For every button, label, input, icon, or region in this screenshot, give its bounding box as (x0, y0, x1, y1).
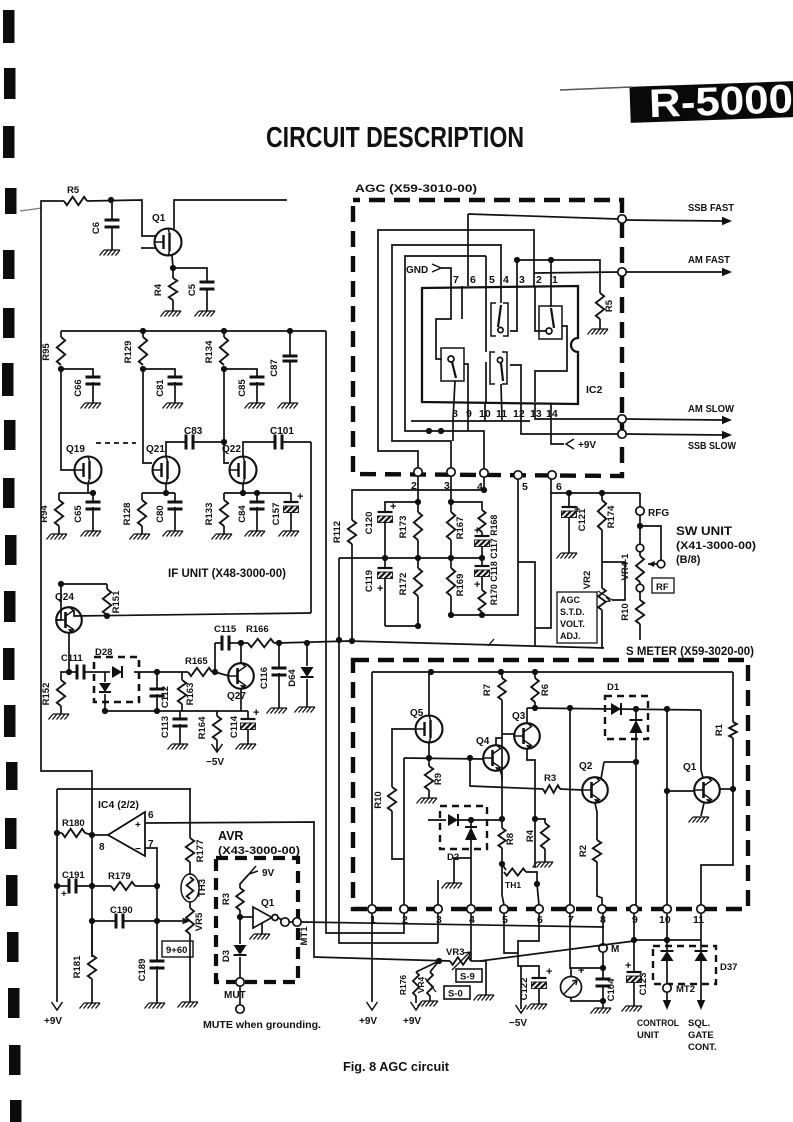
resistor R129 (142, 331, 144, 337)
capacitor C114 (247, 711, 249, 719)
connector MT1 b (289, 921, 293, 923)
wire SSB FAST from pin6 (467, 214, 469, 286)
svg-text:Q1: Q1 (152, 213, 166, 224)
svg-text:R166: R166 (246, 624, 269, 635)
variable resistor VR4 (427, 972, 433, 996)
capacitor C123 (633, 940, 635, 972)
wire pin6 node rail (551, 492, 640, 494)
svg-text:SSB FAST: SSB FAST (688, 202, 735, 214)
junction C121 tap (566, 490, 572, 496)
junction R129 bottom (140, 366, 146, 372)
wire pin3 to R168 column (451, 502, 482, 510)
svg-text:CIRCUIT DESCRIPTION: CIRCUIT DESCRIPTION (266, 122, 524, 154)
resistor R7 (501, 672, 503, 678)
diode D1a (611, 703, 621, 715)
svg-text:R95: R95 (41, 343, 52, 361)
resistor R8 (498, 828, 505, 848)
svg-text:VOLT.: VOLT. (560, 619, 585, 629)
wire R167 to mid rail (450, 540, 452, 558)
resistor R5 inside AGC (596, 293, 604, 319)
svg-text:RF: RF (656, 582, 669, 593)
resistor R174 (601, 493, 603, 500)
svg-text:C116: C116 (259, 667, 270, 689)
meter M (570, 969, 572, 976)
svg-text:9: 9 (632, 914, 638, 926)
resistor R172 (417, 558, 419, 568)
connector VR4-1 bottom (639, 582, 641, 584)
wire Q1 gate 2 stub (141, 247, 155, 249)
model badge R-5000 (629, 77, 793, 127)
wire D3 to MUT (239, 957, 241, 978)
wire R173 to mid rail (417, 540, 419, 558)
diode D3 (239, 917, 241, 944)
resistor R133 (223, 493, 225, 500)
svg-text:9V: 9V (262, 868, 275, 879)
svg-text:R4: R4 (153, 283, 164, 296)
wire Q3 collector (526, 708, 528, 723)
connector RFG (639, 493, 641, 507)
svg-text:C65: C65 (73, 505, 84, 523)
junction R174 tap (599, 490, 605, 496)
variable resistor VR2 (598, 588, 606, 610)
connector MT1 a (281, 918, 289, 926)
S meter pin connectors (368, 905, 376, 913)
wire to C122 node (518, 953, 539, 978)
connector VR4-1 top (636, 544, 644, 552)
junction C116 tap (276, 640, 282, 646)
wire meter top to C104 node (570, 967, 603, 969)
wire pin4 stem (470, 913, 472, 961)
wire S box ground (480, 961, 486, 995)
junction R112 bottom on AGC line (349, 638, 355, 644)
wire column to TH (534, 819, 536, 868)
wire left +9V rail (56, 789, 58, 1002)
ground below C80 (174, 507, 176, 531)
S meter dashed border (353, 660, 748, 909)
svg-text:R164: R164 (197, 716, 208, 739)
capacitor C112 (156, 672, 158, 689)
wire R169 down (450, 596, 452, 615)
svg-text:+: + (135, 820, 141, 831)
svg-text:VR5: VR5 (194, 912, 205, 931)
svg-text:R170 C118 C117 R168: R170 C118 C117 R168 (489, 515, 499, 606)
diode pair D37 dashed box (653, 946, 716, 984)
resistor R95 (60, 331, 62, 337)
svg-text:C122: C122 (519, 978, 530, 1001)
resistor R170 (481, 576, 483, 590)
svg-text:C190: C190 (110, 905, 133, 916)
wire R10 to pin2 riser (392, 811, 404, 859)
resistor R128 (141, 493, 143, 500)
wire VR5 bottom (189, 934, 191, 1002)
wire 9V to R3 (240, 874, 249, 888)
wire R134 to C85 (224, 369, 257, 377)
svg-text:R128: R128 (122, 503, 133, 526)
svg-text:VR4: VR4 (416, 976, 426, 993)
svg-text:+: + (474, 579, 480, 591)
svg-text:Q21: Q21 (146, 444, 165, 455)
wire top-rail column to pin2 (326, 331, 404, 933)
junction mid rail (382, 555, 388, 561)
svg-text:IC4 (2/2): IC4 (2/2) (98, 799, 139, 811)
svg-text:8: 8 (99, 842, 105, 853)
svg-text:R2: R2 (578, 845, 589, 857)
ground below C66 (92, 382, 94, 403)
junction R6 node (532, 705, 538, 711)
svg-text:R169: R169 (455, 574, 466, 597)
svg-text:R10: R10 (620, 603, 631, 620)
wire VR2 bottom to AGC line (601, 610, 603, 648)
wire AM SLOW from pin13 (535, 404, 620, 419)
capacitor C118 (481, 558, 483, 566)
svg-text:Q19: Q19 (66, 444, 85, 455)
svg-text:R5: R5 (67, 185, 80, 196)
resistor R10 sw unit (639, 592, 641, 600)
svg-text:6: 6 (556, 481, 562, 493)
capacitor C65 (92, 493, 94, 502)
wire emitter bottom rail (105, 710, 248, 712)
svg-text:9+60: 9+60 (166, 945, 187, 956)
wire pin9 drop (467, 420, 469, 431)
wire Q21 source node (165, 484, 167, 493)
wire bottom rail (385, 625, 418, 627)
wire VR2 tap loop (602, 562, 625, 600)
AGC dashed border (353, 200, 622, 476)
svg-text:M: M (611, 944, 619, 955)
capacitor C81 (168, 377, 183, 384)
capacitor C85 (250, 377, 265, 384)
svg-text:AGC: AGC (560, 595, 581, 605)
svg-text:+: + (474, 525, 480, 537)
resistor R9 (428, 758, 430, 766)
capacitor C116 (278, 643, 280, 668)
ground below C84 (256, 507, 258, 531)
switch S2 in IC2 (539, 306, 562, 339)
junction C190 right (154, 918, 160, 924)
junction emitter node (66, 669, 72, 675)
wire R174 to VR2 (601, 530, 603, 588)
ground below C81 (174, 382, 176, 403)
svg-text:+: + (253, 707, 259, 719)
wire to pin5 column (451, 479, 518, 615)
svg-text:Fig. 8 AGC circuit: Fig. 8 AGC circuit (343, 1060, 450, 1074)
svg-text:+: + (61, 889, 67, 900)
wire pin8 drop (452, 420, 454, 441)
svg-text:D37: D37 (720, 962, 737, 973)
svg-text:D1: D1 (607, 682, 620, 693)
svg-text:AGC (X59-3010-00): AGC (X59-3010-00) (355, 183, 477, 195)
wire Q3 emitter (527, 749, 535, 819)
resistor R176 (413, 972, 419, 996)
resistor R168 (478, 510, 485, 532)
wire Q2 collector up (601, 762, 604, 779)
resistor R3 avr (236, 888, 244, 910)
svg-text:+: + (546, 966, 552, 978)
svg-text:R8: R8 (505, 833, 516, 845)
junction Q19 source (90, 490, 96, 496)
capacitor C157 (290, 493, 292, 502)
svg-text:−5V: −5V (206, 757, 224, 768)
wire D28b to bottom rail (104, 694, 106, 711)
ground below R5 (599, 319, 601, 329)
svg-text:R7: R7 (482, 684, 493, 696)
svg-text:R-5000: R-5000 (648, 77, 793, 126)
wire source rail Q19 (59, 492, 93, 494)
ground S boxes (474, 995, 495, 1001)
connector tap (657, 560, 665, 568)
svg-text:MUT: MUT (224, 990, 246, 1001)
junction pin9 node (631, 937, 637, 943)
svg-text:S-0: S-0 (448, 989, 463, 1000)
svg-text:Q22: Q22 (222, 444, 241, 455)
binder marks (2, 10, 22, 1122)
ground below C121 (568, 517, 570, 553)
resistor R169 (450, 558, 452, 568)
power +9V under R176 (415, 996, 417, 1003)
svg-text:C85: C85 (237, 379, 248, 397)
junction Q2 collector node (633, 759, 639, 765)
svg-text:Q1: Q1 (683, 762, 697, 773)
svg-text:D64: D64 (287, 669, 298, 687)
junction C190 left (89, 918, 95, 924)
junction R169 R170 bottoms (448, 612, 454, 618)
junction pin3 column (514, 257, 520, 263)
wire op-amp output (92, 834, 108, 836)
wire Q24 emitter (68, 633, 70, 672)
wire R95 to C66 (61, 369, 93, 377)
switch S3 in IC2 (441, 348, 464, 381)
svg-text:ADJ.: ADJ. (560, 631, 581, 641)
svg-text:IC2: IC2 (586, 384, 603, 396)
junction R180 left (54, 830, 60, 836)
diode D2a (448, 814, 458, 826)
wire Q5 gate (392, 729, 415, 787)
box RF (652, 578, 674, 593)
svg-text:R94: R94 (39, 505, 50, 523)
ground below C85 (256, 382, 258, 403)
junction Q1 base tap (664, 788, 670, 794)
wire Q5 drain to rail (428, 672, 430, 716)
svg-text:C191: C191 (62, 870, 85, 881)
wire pin9 column down (633, 913, 635, 940)
resistor R10 s-meter (388, 787, 396, 811)
wire nested route 1 (378, 230, 534, 470)
svg-text:S-9: S-9 (460, 972, 475, 983)
wire pin6 above (537, 884, 539, 905)
svg-text:Q27: Q27 (227, 691, 246, 702)
capacitor C113 (179, 711, 181, 719)
svg-text:R181: R181 (72, 955, 83, 978)
svg-text:R133: R133 (204, 503, 215, 526)
wire pin8 to M connector (602, 913, 604, 944)
resistor R177 (189, 789, 191, 838)
wire Q4 collector (496, 738, 502, 745)
wire nested route 2 (392, 245, 501, 470)
junction C191 left (54, 883, 60, 889)
svg-text:R176: R176 (398, 975, 408, 996)
wire R172 down (417, 596, 419, 626)
dashed gate link Q19 to Q21 (96, 442, 136, 444)
wire Q1 emitter (701, 803, 704, 816)
junction pin7 tap (567, 705, 573, 711)
svg-text:C84: C84 (237, 505, 248, 523)
svg-text:AM FAST: AM FAST (688, 254, 731, 266)
wire VR3 line to pin9 (480, 941, 634, 961)
resistor R5 (64, 197, 87, 205)
IC IC2 body (422, 286, 578, 404)
svg-text:C6: C6 (91, 222, 102, 234)
wire pin3 column top (516, 260, 518, 286)
wire pin7 column (569, 708, 571, 905)
wire R7 column (501, 700, 503, 828)
wire D28 output (134, 671, 157, 673)
capacitor C122 (532, 977, 547, 979)
capacitor C117 (481, 532, 483, 536)
junction op-amp output node (89, 832, 95, 838)
svg-text:(X41-3000-00): (X41-3000-00) (676, 540, 756, 552)
wire pin11 riser (701, 789, 733, 905)
junction meter C104 node (600, 965, 606, 971)
svg-text:12: 12 (513, 408, 525, 420)
svg-text:R167: R167 (455, 517, 466, 540)
svg-text:MUTE when grounding.: MUTE when grounding. (203, 1020, 321, 1031)
svg-text:R134: R134 (204, 340, 215, 363)
variable resistor VR5 (189, 902, 191, 908)
ground below buffer (261, 923, 263, 934)
svg-text:+: + (390, 501, 396, 513)
svg-text:TH1: TH1 (505, 880, 521, 890)
signal AM SLOW (626, 419, 722, 420)
svg-text:−: − (135, 844, 141, 855)
wire R4 tap (535, 819, 545, 823)
wire pin1 column top (550, 260, 552, 286)
svg-text:CONTROL: CONTROL (637, 1018, 679, 1029)
svg-text:SQL.: SQL. (688, 1018, 710, 1029)
capacitor C66 (86, 377, 101, 384)
power +9V under pin1 (367, 1002, 378, 1010)
box AGC STD VOLT ADJ (557, 592, 597, 643)
svg-text:C115: C115 (214, 624, 237, 635)
resistor R181 (91, 921, 93, 955)
svg-text:3: 3 (519, 274, 525, 286)
svg-text:C104: C104 (606, 978, 617, 1001)
wire pin10 stem (666, 913, 668, 940)
svg-text:6: 6 (537, 914, 543, 926)
signal AM FAST (626, 271, 722, 273)
ground below C114 (247, 730, 249, 744)
wire Q1 drain (174, 200, 287, 230)
wire D1 to Q2 collector (635, 733, 637, 762)
svg-text:UNIT: UNIT (637, 1030, 659, 1041)
svg-text:10: 10 (659, 914, 671, 926)
wire Q1 base (667, 790, 694, 792)
resistor R173 (417, 502, 419, 512)
junction emitter rail (532, 816, 538, 822)
ground below VR4 (429, 996, 431, 1001)
wire source line to Q4 base (404, 758, 483, 759)
svg-text:IF UNIT (X48-3000-00): IF UNIT (X48-3000-00) (168, 566, 286, 580)
svg-text:R152: R152 (41, 683, 52, 706)
resistor R134 (223, 331, 225, 337)
ground below C87 (289, 361, 291, 403)
ground below C65 (92, 507, 94, 531)
wire R2 to pin8 (597, 862, 602, 905)
resistor R4 s-meter (541, 823, 549, 849)
diode D64 (306, 643, 308, 666)
svg-text:CONT.: CONT. (688, 1042, 717, 1053)
wire D2 bottom (454, 840, 471, 883)
svg-text:C112: C112 (160, 686, 171, 708)
svg-text:GND: GND (406, 265, 428, 276)
ground below D64 (306, 679, 308, 707)
power 9V in AVR (249, 866, 258, 874)
tap arrow into VR4-1 (648, 563, 657, 565)
connector M (599, 944, 607, 952)
diode D1b (635, 709, 637, 720)
wire Q24 collector rail (74, 610, 311, 616)
capacitor C120 (378, 511, 393, 513)
wire Q27 collector (240, 643, 242, 663)
wire R8 column to pin5 (502, 848, 504, 905)
junction D64 tap (304, 640, 310, 646)
svg-text:S.T.D.: S.T.D. (560, 607, 585, 617)
wire pin5 column down (504, 913, 518, 953)
svg-text:C111: C111 (61, 653, 83, 664)
svg-text:C87: C87 (269, 359, 280, 376)
junction R3 drop (467, 755, 473, 761)
junction R95 bottom (58, 366, 64, 372)
wire meter bottom (571, 997, 603, 1001)
wire pin2 riser (403, 758, 405, 905)
junction pin2 node (415, 499, 421, 505)
svg-text:R6: R6 (540, 684, 551, 696)
svg-text:R10: R10 (373, 791, 384, 808)
wire R163 to rail (181, 704, 183, 711)
wire Q19 source node (87, 484, 89, 493)
svg-text:VR4-1: VR4-1 (620, 553, 631, 581)
IC2 internal wiring (436, 286, 451, 359)
svg-text:1: 1 (552, 274, 558, 286)
box S-9 (456, 969, 482, 982)
svg-text:R1: R1 (714, 723, 725, 736)
svg-text:C120: C120 (364, 512, 375, 535)
capacitor C5 (200, 282, 215, 289)
wire R1 bottom (732, 738, 734, 789)
wire R10 bottom (639, 624, 641, 640)
wire R170 bottom (481, 612, 483, 615)
svg-text:Q2: Q2 (579, 761, 593, 772)
wire R129 to C81 (143, 369, 175, 377)
connector MUT on border (236, 978, 244, 986)
wire Q5 source node (428, 743, 430, 758)
capacitor C189 (150, 961, 165, 968)
wire VR3 right to pin4 (471, 960, 480, 962)
wire mid rail (339, 557, 482, 559)
svg-text:(B/8): (B/8) (676, 554, 701, 566)
wire C115 left leg (214, 643, 216, 672)
ground below C189 (156, 966, 158, 1003)
svg-text:D3: D3 (221, 950, 232, 962)
box S-0 (444, 986, 470, 999)
wire Q4 emitter (500, 769, 502, 780)
wire pin9 to D37 (634, 939, 701, 941)
switch S4 in IC2 (490, 352, 507, 384)
svg-text:C119: C119 (364, 570, 375, 592)
wire pin6 jog (518, 913, 539, 953)
wire s-meter top rail (372, 671, 733, 673)
svg-text:5: 5 (522, 481, 528, 493)
svg-text:+9V: +9V (403, 1016, 421, 1027)
